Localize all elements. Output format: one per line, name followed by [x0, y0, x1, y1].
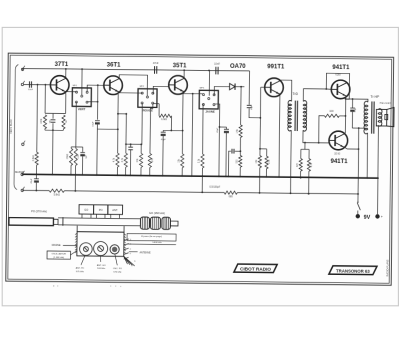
svg-text:10kΩ: 10kΩ: [67, 154, 69, 160]
capacitor 40nF: [128, 147, 133, 150]
capacitor 45uF (rail link): [34, 179, 39, 183]
wire AGC chain: [240, 87, 242, 125]
coil legs: [81, 214, 83, 218]
wire base drop: [259, 87, 262, 155]
resistor 4,7k: [148, 153, 151, 167]
svg-text:fil jaune (fin arr page): fil jaune (fin arr page): [141, 235, 162, 238]
svg-text:10μF: 10μF: [251, 104, 253, 110]
antenne ticks: [124, 239, 129, 241]
capacitor 10uF coupling: [247, 105, 252, 107]
speaker HP: [376, 107, 394, 126]
junction: [259, 176, 261, 178]
resistor 1k emitter: [62, 115, 65, 129]
resistor 3,3k: [201, 154, 204, 168]
input bracket (vers bloc): [14, 64, 18, 189]
resistor 2,5k: [265, 156, 268, 169]
coil PO box: [94, 205, 108, 215]
wire: [259, 168, 261, 177]
transistor 35T1: [169, 76, 188, 95]
wire 35T1 to MF3 pin: [182, 93, 203, 95]
wire speaker return drop: [357, 128, 360, 194]
transformer TrD secondary: [303, 101, 307, 132]
junction: [228, 176, 230, 178]
svg-text:10μF: 10μF: [92, 121, 94, 127]
svg-text:VERT: VERT: [78, 107, 86, 111]
terminal E2: [21, 81, 24, 86]
wire det return: [191, 94, 194, 176]
svg-text:2,2kΩ: 2,2kΩ: [33, 155, 35, 161]
resistor 21k: [139, 153, 142, 167]
junction: [300, 177, 302, 179]
trimmer1 leader: [81, 255, 85, 265]
wire: [162, 136, 164, 176]
junction: [149, 175, 151, 177]
transistor 941T1 top: [331, 80, 350, 99]
antenne leader: [129, 251, 138, 253]
rod tube: [58, 217, 141, 220]
wire: [225, 133, 227, 176]
junction: [240, 86, 242, 88]
wire collector 37T1: [65, 69, 67, 78]
resistor 10k: [258, 156, 261, 168]
svg-text:36T1: 36T1: [107, 62, 121, 68]
fil jaune box: [127, 234, 176, 242]
wire: [35, 174, 37, 178]
junction: [278, 176, 280, 178]
svg-text:TRANSONOR 63: TRANSONOR 63: [336, 268, 370, 273]
rod coil 2: [150, 217, 160, 229]
wire rail link: [201, 176, 203, 192]
wire: [235, 86, 244, 88]
wire: [125, 114, 127, 153]
block risers: [76, 226, 78, 232]
capacitor 47nF (top rail): [155, 66, 157, 74]
junction: [182, 130, 184, 132]
resistor 500: [239, 155, 242, 167]
transformer TrD core: [294, 101, 296, 131]
svg-text:HELGEO: HELGEO: [380, 103, 392, 105]
junction: [170, 130, 172, 132]
resistor 15k: [181, 154, 184, 168]
wire TrD primary bottom: [290, 130, 293, 177]
wire: [81, 156, 83, 175]
wire: [259, 177, 261, 193]
svg-text:941T1: 941T1: [331, 159, 349, 165]
svg-text:1E 60: 1E 60: [334, 153, 341, 155]
svg-text:10nF: 10nF: [214, 63, 220, 66]
wire MF3 side drop: [213, 104, 219, 176]
wire: [300, 149, 302, 158]
wire emitter 35T1: [181, 92, 184, 154]
wire: [239, 167, 241, 176]
svg-text:GO (160 kHz): GO (160 kHz): [149, 211, 165, 215]
wire AGC cap stub: [235, 150, 241, 152]
svg-text:PO: PO: [99, 208, 103, 212]
wire divider link: [260, 148, 267, 150]
wire: [130, 144, 132, 147]
capacitor 10nF (top rail): [216, 67, 218, 75]
emitter network top bar: [45, 112, 65, 114]
wire: [149, 167, 151, 175]
switch: [357, 203, 360, 210]
wire MF3 pin drop: [202, 104, 205, 154]
svg-text:1μF: 1μF: [86, 154, 88, 158]
svg-text:9V: 9V: [364, 215, 371, 221]
trimmer3 leader: [115, 254, 118, 265]
svg-text:Tr HP: Tr HP: [370, 95, 380, 99]
svg-text:12kΩ: 12kΩ: [161, 118, 167, 121]
transformer TrHP core: [371, 101, 373, 133]
wire base 991T1: [261, 86, 265, 88]
svg-text:941T1: 941T1: [332, 65, 350, 71]
wire emitter 37T1: [64, 92, 66, 114]
svg-text:ANTENNE: ANTENNE: [140, 251, 151, 254]
border frame: [6, 53, 394, 285]
svg-text:ROUGE: ROUGE: [143, 109, 153, 113]
wire: [35, 183, 37, 191]
wire base 37T1: [24, 83, 51, 85]
resistor 1,5k: [239, 125, 242, 138]
junction: [116, 174, 118, 176]
transistor 991T1: [265, 78, 284, 97]
junction: [259, 148, 261, 150]
wire: [140, 167, 142, 175]
rod tick: [62, 217, 64, 226]
svg-text:OA70: OA70: [230, 64, 246, 70]
wire network to rail: [51, 130, 53, 174]
bias loop 941T1 top: [326, 73, 349, 99]
wire: [181, 168, 183, 176]
divider bar MF1: [71, 146, 82, 148]
wire speaker bottom: [377, 126, 380, 178]
svg-text:0,5/100μF: 0,5/100μF: [209, 186, 220, 189]
junction: [290, 176, 292, 178]
resistor 1,2k: [74, 148, 77, 165]
junction: [117, 113, 119, 115]
wire: [357, 211, 359, 214]
resistor 10k: [69, 148, 72, 165]
wire: [290, 177, 292, 193]
junction: [36, 174, 38, 176]
wire: [129, 150, 131, 176]
svg-text:ANT. PO: ANT. PO: [76, 267, 85, 270]
resistor 100: [324, 114, 339, 117]
resistor 4,7k: [307, 159, 310, 172]
trimmer 1: [80, 243, 93, 256]
diode OA70: [230, 83, 236, 89]
battery terminal -: [356, 214, 360, 218]
junction: [239, 176, 241, 178]
wire: [308, 171, 310, 194]
capacitor 10uF AGC: [95, 121, 100, 125]
junction: [52, 129, 54, 131]
svg-text:PO (270 kHz): PO (270 kHz): [31, 209, 47, 213]
wire: [308, 149, 310, 158]
capacitor 10nF input: [29, 81, 31, 87]
wire MF2 pin drop: [141, 103, 142, 153]
wire: [225, 127, 227, 129]
wire 37T1 to MF1 pin: [65, 91, 77, 93]
wire collector top feed: [346, 99, 368, 102]
wire top rail end drop: [248, 71, 250, 105]
junction: [259, 117, 261, 119]
ferrite rod: [9, 218, 54, 226]
wire: [74, 175, 76, 191]
ground rail (thick): [22, 174, 378, 178]
wire base 35T1: [153, 86, 169, 94]
svg-text:100k: 100k: [41, 118, 43, 124]
transformer TrHP secondary: [378, 109, 382, 127]
svg-text:10nF: 10nF: [28, 89, 34, 91]
bottom fan: [124, 256, 128, 264]
speck: [53, 285, 121, 287]
junction: [325, 88, 327, 90]
wire emitter 991T1: [278, 95, 281, 177]
terminal E5: [21, 187, 24, 192]
wire: [300, 171, 302, 178]
svg-text:160 kHz: 160 kHz: [97, 268, 105, 270]
svg-text:50μF: 50μF: [355, 106, 357, 112]
resistor 470: [299, 159, 302, 172]
junction: [97, 84, 99, 86]
wire battery minus: [357, 194, 359, 201]
svg-text:RADIO-PLANS: RADIO-PLANS: [386, 259, 389, 276]
junction: [225, 176, 227, 178]
junction: [183, 69, 185, 71]
junction: [218, 175, 220, 177]
wire: [125, 167, 127, 175]
transistor 37T1: [50, 76, 69, 95]
rod stub: [170, 221, 178, 226]
svg-text:35T1: 35T1: [173, 63, 187, 69]
svg-text:6160: 6160: [335, 74, 341, 76]
svg-text:575 kHz: 575 kHz: [76, 271, 84, 273]
junction: [308, 193, 310, 195]
terminal MASSE: [21, 171, 24, 176]
wire emitter junction: [344, 98, 346, 133]
wire: [36, 165, 38, 174]
junction: [129, 175, 131, 177]
junction: [82, 174, 84, 176]
svg-text:(1 400 kHz): (1 400 kHz): [53, 257, 64, 259]
svg-text:37T1: 37T1: [55, 62, 69, 68]
junction: [35, 190, 37, 192]
wire MF3 top feed: [208, 70, 210, 95]
terminal E1: [21, 66, 24, 71]
wire: [96, 124, 99, 175]
svg-text:47nF: 47nF: [153, 62, 159, 65]
wire base 941T1 top: [326, 88, 331, 90]
IF transformer MF3: [199, 90, 218, 109]
junction: [74, 190, 76, 192]
block hatch: [75, 233, 77, 235]
transformer TrD primary: [288, 100, 292, 131]
svg-text:MASSE: MASSE: [52, 244, 61, 247]
wire: [116, 167, 118, 175]
junction: [345, 115, 347, 117]
junction: [266, 176, 268, 178]
wire primary bottom: [366, 133, 368, 178]
junction: [70, 174, 72, 176]
wire: [265, 169, 267, 177]
trimmer 3: [110, 245, 119, 254]
resistor 2,2k: [35, 152, 38, 165]
battery terminal +: [375, 214, 379, 218]
fil jaune underline: [127, 243, 176, 246]
wire: [249, 108, 260, 118]
junction: [358, 148, 360, 150]
svg-text:VERS BLOC: VERS BLOC: [9, 119, 13, 134]
wire emitter 941T1 bottom: [344, 147, 358, 149]
wire MF1 right pin out: [87, 101, 98, 103]
wire MF2 pin drop 2: [150, 103, 153, 153]
junction: [290, 192, 292, 194]
wire: [201, 168, 203, 176]
wire: [44, 129, 46, 130]
osc leader: [70, 251, 76, 255]
wire 36T1 to MF2 pin: [118, 92, 143, 94]
IF transformer MF2: [138, 89, 157, 108]
junction: [125, 174, 127, 176]
wire E1 stub: [22, 68, 24, 70]
capacitor AGC: [232, 149, 234, 154]
junction: [181, 175, 183, 177]
wire to diode: [214, 86, 229, 95]
wire: [228, 151, 231, 176]
wire bypass link: [163, 129, 182, 131]
resistor 4,7k: [116, 153, 119, 167]
svg-text:5,6kΩ: 5,6kΩ: [54, 193, 61, 196]
rod coil 3: [162, 217, 171, 229]
svg-text:OSC. PO: OSC. PO: [113, 268, 122, 270]
junction: [201, 175, 203, 177]
junction: [208, 70, 210, 72]
IF transformer MF1: [72, 88, 91, 107]
junction: [357, 193, 359, 195]
svg-text:991T1: 991T1: [267, 64, 285, 70]
junction: [96, 174, 98, 176]
terminal E3: [22, 141, 25, 146]
capacitor 1uF: [80, 153, 85, 157]
capacitor 41uF: [224, 129, 229, 133]
junction: [81, 68, 83, 70]
svg-text:JAUNE: JAUNE: [205, 110, 215, 114]
wire: [70, 165, 72, 174]
wire base 36T1: [87, 85, 104, 91]
wire speaker return: [352, 127, 367, 129]
rod coil 1: [140, 217, 149, 229]
svg-text:ANT.: ANT.: [112, 208, 118, 212]
wire: [75, 165, 77, 174]
coil ANT box: [108, 205, 123, 215]
cartouche TRANSONOR 63: [329, 266, 377, 275]
supply rail (lower): [22, 189, 358, 196]
wire: [319, 116, 325, 143]
svg-text:40μF: 40μF: [161, 139, 167, 141]
emitter network bottom bar: [45, 129, 63, 131]
block hatch right: [124, 234, 126, 236]
wire bias h-link: [126, 143, 141, 145]
resistor 100k: [43, 115, 46, 129]
junction: [162, 175, 164, 177]
transformer TrHP primary: [364, 101, 368, 134]
junction: [75, 174, 77, 176]
svg-text:CIBOT RADIO: CIBOT RADIO: [240, 267, 271, 272]
junction: [366, 177, 368, 179]
junction: [192, 93, 194, 95]
wire: [239, 137, 241, 155]
tuning block: [77, 232, 124, 257]
wire: [36, 85, 39, 153]
wire emitter 36T1: [117, 94, 120, 153]
wire MF1 top feed: [81, 69, 83, 95]
junction: [44, 84, 46, 86]
wire AGC drop: [96, 85, 98, 119]
svg-text:680: 680: [229, 195, 234, 198]
wire TrD secondary bottom: [303, 130, 329, 143]
svg-text:OSCILLATEUR: OSCILLATEUR: [52, 252, 67, 255]
wire battery plus: [377, 178, 379, 214]
wire AGC link: [97, 128, 117, 130]
wire: [44, 85, 46, 114]
capacitor 40uF: [161, 130, 166, 136]
cartouche CIBOT RADIO: [234, 264, 277, 273]
wire divider bar: [301, 148, 309, 150]
svg-text:1400 kHz: 1400 kHz: [152, 242, 161, 244]
svg-text:100: 100: [329, 110, 334, 113]
oscillateur label box: [47, 251, 70, 259]
wire collector 991T1: [279, 79, 281, 81]
trimmer2 leader: [99, 256, 101, 262]
capacitor 50uF out: [350, 98, 355, 128]
junction: [65, 68, 67, 70]
wire bias link: [118, 113, 126, 115]
transistor 941T1 bottom: [329, 131, 348, 150]
junction: [37, 84, 39, 86]
wire: [170, 116, 172, 131]
svg-text:575 kHz: 575 kHz: [113, 271, 121, 273]
resistor 2,7k: [124, 153, 127, 167]
svg-text:45μF: 45μF: [31, 178, 33, 184]
wire MF1 pin drop: [75, 102, 78, 148]
svg-text:ANT. GO: ANT. GO: [97, 264, 106, 267]
transistor 36T1: [104, 76, 123, 95]
wire top rail: [24, 68, 250, 70]
wire collector 35T1: [183, 70, 185, 78]
masse leader: [63, 244, 77, 246]
wire collector 36T1: [119, 75, 148, 96]
junction: [304, 142, 306, 144]
resistor 12k: [153, 104, 172, 118]
svg-text:TrD: TrD: [293, 92, 299, 96]
svg-text:41μF: 41μF: [217, 127, 219, 133]
wire: [266, 149, 268, 156]
coil GO box: [79, 205, 94, 215]
junction: [259, 192, 261, 194]
ferrite rod cap: [53, 219, 58, 224]
junction: [140, 175, 142, 177]
wire TrD tap: [304, 143, 306, 150]
wire TrD secondary top: [303, 89, 326, 102]
junction: [239, 150, 241, 152]
capacitor 50nF bypass: [51, 113, 56, 122]
svg-text:GO: GO: [84, 208, 88, 212]
trimmer 2: [94, 241, 108, 255]
